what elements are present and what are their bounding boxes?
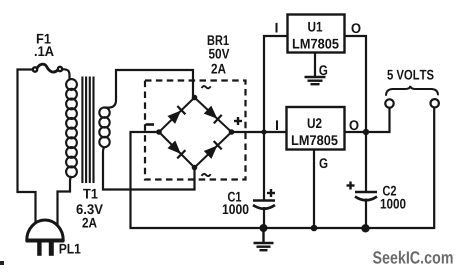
diode D4 (BR1 lower-right, AC bottom to + node) bbox=[195, 132, 232, 168]
junction: C1 ground bbox=[260, 224, 268, 232]
regulator U1 bbox=[288, 15, 345, 53]
pin label G (U2) bbox=[320, 158, 328, 168]
wire: T1 primary bottom to plug PL1 right prong bbox=[58, 176, 72, 225]
polarity + (C2) bbox=[347, 182, 355, 190]
wire: fuse F1 right lead to transformer T1 primary top bbox=[62, 69, 70, 79]
junction: input node bbox=[261, 129, 266, 134]
diode D2 (BR1 upper-right, AC top to + node) bbox=[195, 98, 232, 133]
fuse F1 bbox=[33, 64, 62, 72]
wire: input junction down to C1 bbox=[263, 132, 265, 200]
label + (BR1 output) bbox=[234, 117, 242, 125]
wire: T1 secondary bottom to bridge BR1 AC bottom node bbox=[103, 147, 195, 190]
wire: ground rail (BR1 − node, down, along bottom, up to − output terminal) bbox=[131, 108, 435, 228]
output terminal + (5 V) bbox=[385, 99, 393, 107]
label F1 bbox=[37, 34, 51, 44]
label .1A bbox=[35, 46, 54, 56]
node: BR1 + right bbox=[229, 129, 235, 135]
ground (U1) bbox=[305, 77, 326, 84]
junction: U2 G ground bbox=[311, 225, 318, 232]
output terminal − (5 V) bbox=[431, 99, 439, 107]
wire: input junction up to U1 input bbox=[264, 36, 287, 132]
AC squiggle near top node bbox=[202, 86, 211, 88]
label LM7805 (U1) bbox=[293, 39, 339, 49]
diode D1 (BR1 upper-left, − node to AC top) bbox=[159, 98, 195, 133]
label BR1 bbox=[208, 35, 229, 45]
wire: U2 ground pin to ground rail bbox=[313, 150, 315, 229]
pin label G (U1) bbox=[319, 65, 327, 75]
label 2A (T1) bbox=[82, 218, 96, 228]
pin label O (U2) bbox=[350, 120, 359, 130]
plug PL1 bbox=[26, 220, 64, 256]
bridge rectifier BR1 dashed enclosure bbox=[145, 81, 246, 180]
AC squiggle near bottom node bbox=[202, 174, 211, 176]
label U2 bbox=[308, 118, 322, 128]
label 2A (BR1) bbox=[211, 64, 225, 74]
wire: U1 ground pin bbox=[314, 53, 316, 77]
label 1000 (C2) bbox=[381, 199, 406, 209]
pin label O (U1) bbox=[352, 23, 361, 33]
regulator U2 bbox=[287, 107, 345, 150]
label U1 bbox=[308, 22, 322, 32]
transformer T1 secondary winding bbox=[99, 107, 109, 147]
wire: +5V junction down to capacitor C2 bbox=[365, 132, 367, 191]
label 5 VOLTS bbox=[387, 70, 433, 80]
node: BR1 AC top bbox=[192, 95, 198, 101]
label 6.3V bbox=[77, 204, 103, 214]
capacitor C1 bbox=[253, 201, 275, 209]
label C2 bbox=[383, 186, 396, 196]
ground (rail, below C1 junction) bbox=[254, 228, 274, 250]
wire: input junction to U2 input bbox=[264, 131, 287, 133]
label PL1 bbox=[60, 244, 81, 254]
label − (BR1 output) bbox=[146, 123, 155, 126]
label LM7805 (U2) bbox=[292, 135, 338, 145]
wire: U2 output to +5V output terminal bbox=[345, 108, 390, 132]
junction: +5V node bbox=[363, 129, 369, 135]
polarity + (C1) bbox=[267, 189, 275, 197]
capacitor C2 bbox=[355, 192, 377, 200]
wire: T1 secondary top up and over to bridge BR1 AC top node bbox=[105, 70, 194, 108]
label 1000 (C1) bbox=[223, 204, 249, 214]
node: BR1 AC bottom bbox=[192, 165, 198, 171]
pin label I (U1) bbox=[276, 23, 278, 33]
transformer T1 core bbox=[82, 77, 93, 184]
label 50V bbox=[209, 49, 230, 59]
brace over output terminals bbox=[386, 86, 438, 96]
wire: BR1 + node to input junction bbox=[232, 131, 265, 133]
scan artifact bottom-left edge bbox=[0, 261, 4, 265]
node: BR1 − left bbox=[156, 129, 162, 135]
diode D3 (BR1 lower-left, − node to AC bottom) bbox=[159, 132, 195, 168]
wire: fuse F1 left lead down left side to plug PL1 left prong bbox=[18, 70, 36, 225]
pin label I (U2) bbox=[276, 120, 278, 130]
wire: U1 output down to +5V junction bbox=[345, 36, 367, 132]
label T1 bbox=[83, 189, 98, 199]
wire: C1 to ground rail bbox=[263, 207, 265, 228]
junction: C2 ground bbox=[361, 224, 369, 232]
wire: C2 to ground rail bbox=[365, 199, 367, 229]
label C1 bbox=[228, 192, 241, 202]
transformer T1 primary winding bbox=[66, 79, 77, 177]
watermark SeekIC.com bbox=[373, 251, 453, 264]
